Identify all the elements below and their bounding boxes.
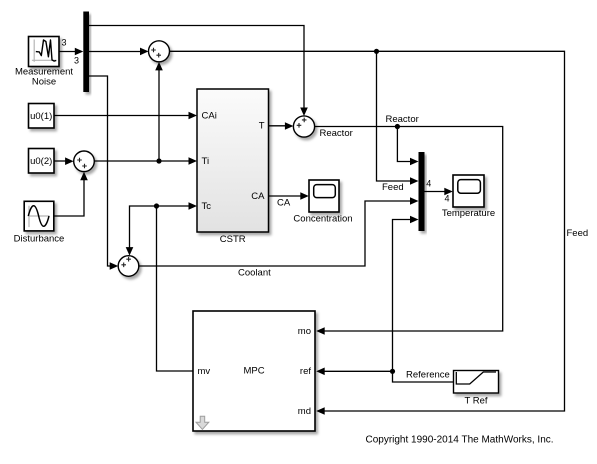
block MPC [193, 311, 315, 431]
svg-text:CA: CA [277, 198, 291, 209]
junction dot D5 [154, 203, 159, 208]
mux bar [419, 152, 425, 231]
svg-text:Noise: Noise [32, 77, 56, 88]
block Measurement Noise [15, 37, 73, 88]
block T Ref [454, 371, 499, 407]
wire D4 up to mux in4 [393, 216, 419, 372]
block u0(2) [29, 149, 55, 174]
wire Sum2 out to MPC mo [315, 127, 503, 335]
wire MPC mv out left and up to junction D5 [157, 206, 194, 371]
wire D2 down to mux in2 (Feed) [377, 51, 419, 185]
svg-text:CAi: CAi [202, 111, 217, 122]
svg-text:Feed: Feed [382, 182, 404, 193]
wire D5 right into CSTR Tc [157, 202, 198, 210]
sum Sum4 [74, 151, 95, 172]
wire D3 down to mux in1 [397, 127, 418, 166]
demux bar [83, 12, 89, 93]
block Disturbance [14, 201, 65, 244]
copyright text [365, 435, 553, 446]
svg-text:Reactor: Reactor [320, 128, 353, 139]
svg-text:md: md [298, 406, 311, 417]
block CSTR [197, 89, 269, 245]
label Coolant [238, 268, 271, 279]
svg-text:mv: mv [198, 366, 211, 377]
wire Sum4 to Ti with junction [94, 157, 197, 165]
svg-text:4: 4 [426, 179, 431, 189]
label Reactor (at sum) [320, 128, 353, 139]
wire D5 left and down into Sum3 top [126, 206, 157, 256]
svg-text:T: T [259, 121, 265, 132]
sum Sum1 [149, 41, 170, 62]
wire u0(1) to CSTR CAi [54, 112, 197, 120]
svg-text:Reactor: Reactor [386, 114, 419, 125]
wire Sum1 out right, down right side to MPC md (Feed) [170, 51, 565, 415]
label Reactor (at mux) [386, 114, 419, 125]
svg-text:Temperature: Temperature [442, 208, 495, 219]
svg-text:mo: mo [298, 326, 311, 337]
mask arrow icon inside MPC [196, 416, 209, 429]
junction dot D3 [395, 124, 400, 129]
block Concentration scope [293, 180, 352, 225]
wire Disturbance to Sum4 bottom [54, 172, 88, 216]
label Feed (right side) [567, 228, 589, 239]
svg-text:CA: CA [251, 191, 265, 202]
wire CSTR CA to Concentration scope [269, 192, 309, 208]
svg-text:Ti: Ti [202, 156, 210, 167]
svg-text:u0(2): u0(2) [30, 156, 52, 167]
wire D1 up to Sum1 bottom [155, 62, 163, 161]
svg-text:Copyright 1990-2014 The MathWo: Copyright 1990-2014 The MathWorks, Inc. [365, 435, 553, 446]
wire T Ref out to junction D4 [393, 371, 454, 382]
wire demux out2 to Sum1 left [89, 48, 149, 56]
svg-text:Reference: Reference [406, 370, 450, 381]
svg-text:Coolant: Coolant [238, 268, 271, 279]
junction dot D4 [390, 369, 395, 374]
wire mux out to Temperature with width labels 4 [425, 179, 453, 204]
svg-text:3: 3 [74, 56, 79, 66]
svg-text:Tc: Tc [202, 201, 212, 212]
label Reference [406, 370, 450, 381]
svg-text:Concentration: Concentration [293, 214, 352, 225]
wire u0(2) to Sum4 left [54, 157, 74, 165]
label Feed (at mux) [382, 182, 404, 193]
svg-text:3: 3 [62, 38, 67, 48]
svg-text:4: 4 [445, 194, 450, 204]
svg-text:Disturbance: Disturbance [14, 234, 65, 245]
wire demux out3 down to Sum3 left [89, 76, 118, 270]
svg-text:CSTR: CSTR [220, 234, 246, 245]
junction dot D2 [374, 49, 379, 54]
junction dot D1 [156, 158, 161, 163]
block Temperature scope [442, 175, 495, 219]
svg-text:MPC: MPC [243, 366, 264, 377]
wire Sum3 out (Coolant) to mux in3 [139, 197, 419, 266]
block u0(1) [29, 104, 55, 129]
wire D4 left into MPC ref [316, 368, 392, 376]
wire CSTR T to Sum2 left [269, 122, 294, 130]
sum Sum3 (coolant) [118, 256, 139, 277]
wire Measurement Noise to Demux with width label 3 [59, 38, 83, 66]
wire demux out1 to Sum2 top [89, 26, 308, 117]
svg-text:Feed: Feed [567, 228, 589, 239]
svg-text:T Ref: T Ref [464, 396, 487, 407]
sum Sum2 (Reactor) [293, 116, 314, 137]
svg-text:u0(1): u0(1) [30, 111, 52, 122]
svg-text:ref: ref [300, 366, 311, 377]
